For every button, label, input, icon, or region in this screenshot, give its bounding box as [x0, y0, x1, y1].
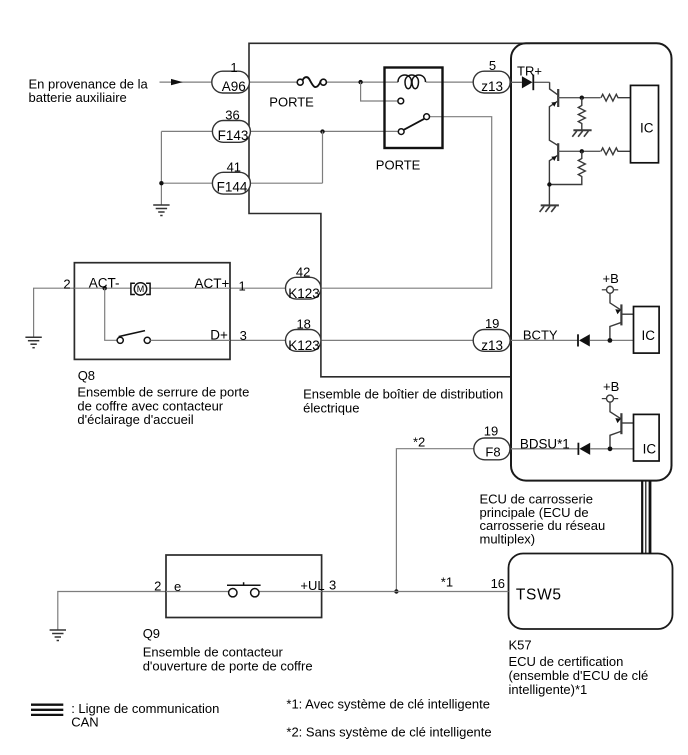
svg-text:41: 41: [227, 160, 241, 175]
ground: hatched inside ECU upper: [572, 130, 591, 137]
IC box BDSU: [634, 414, 660, 461]
node: junction *1 wire: [394, 589, 398, 593]
svg-text:*2: Sans système de clé intell: *2: Sans système de clé intelligente: [286, 725, 491, 740]
wire: Q9 internal right: [259, 591, 322, 593]
node: emitter/resistor junction: [547, 182, 551, 186]
transistor Q3 (BCTY driver): [610, 293, 634, 338]
svg-text:IC: IC: [643, 441, 657, 456]
svg-text:Q9: Q9: [143, 626, 160, 641]
svg-text:BDSU*1: BDSU*1: [520, 436, 570, 451]
IC box BCTY: [634, 307, 660, 354]
resistor R1 horizontal to IC: [601, 94, 631, 101]
transistor Q2 (ECU input pair lower): [549, 143, 558, 204]
resistor R2 horizontal to IC: [601, 148, 631, 155]
svg-text:2: 2: [63, 277, 70, 292]
Q8 courtesy switch blade: [119, 331, 145, 337]
svg-text:2: 2: [154, 579, 161, 594]
svg-text:PORTE: PORTE: [376, 157, 421, 172]
svg-text:3: 3: [240, 328, 247, 343]
svg-text:*2: *2: [413, 434, 425, 449]
wire: Q1 base to resistor node: [558, 97, 600, 99]
node: base node upper: [580, 96, 584, 100]
wire: Q8 internal ACT- to motor: [74, 287, 131, 289]
svg-text:F143: F143: [218, 128, 249, 143]
node: junction F144 / ground: [159, 181, 163, 185]
IC box upper: [631, 85, 659, 162]
svg-text:TSW5: TSW5: [516, 586, 562, 603]
svg-text:16: 16: [491, 576, 505, 591]
svg-text:CAN: CAN: [71, 715, 98, 730]
svg-text:42: 42: [296, 265, 310, 280]
fuse PORTE: [297, 77, 326, 87]
connector z13 pin5: [473, 71, 510, 93]
svg-text:de coffre avec contacteur: de coffre avec contacteur: [77, 398, 223, 413]
ground: hatched inside ECU lower: [540, 205, 559, 212]
resistor R4 vertical to emitter return: [549, 151, 585, 184]
wire: Q8 switch to D+: [150, 339, 230, 341]
node: base node lower: [580, 149, 584, 153]
svg-text:F8: F8: [485, 444, 500, 459]
svg-text:d'éclairage d'accueil: d'éclairage d'accueil: [77, 412, 193, 427]
ground: left of Q9: [50, 630, 66, 641]
svg-text:ACT-: ACT-: [89, 276, 120, 291]
wire: Q9 pin3 to TSW5 pin16: [322, 591, 509, 593]
wire: F143 left to ground junction: [161, 130, 212, 132]
svg-text:z13: z13: [481, 79, 503, 94]
wire: A96 to fuse: [249, 81, 297, 83]
connector F8 pin19: [474, 438, 510, 460]
svg-text:IC: IC: [640, 120, 654, 135]
svg-text:TR+: TR+: [517, 63, 542, 78]
svg-text:F144: F144: [217, 180, 248, 195]
resistor R3 vertical pulldown: [578, 98, 585, 130]
svg-text:multiplex): multiplex): [480, 532, 536, 547]
svg-text:ACT+: ACT+: [195, 276, 230, 291]
transistor Q1 (ECU input pair upper): [549, 82, 558, 145]
svg-text:36: 36: [225, 107, 239, 122]
wire: relay switch output to K123 pin42: [321, 117, 492, 289]
wire: F144 right segment: [251, 182, 323, 184]
svg-text:5: 5: [489, 58, 496, 73]
svg-text:1: 1: [230, 60, 237, 75]
diode D2 BCTY: [577, 334, 579, 346]
Q8 box (serrure de porte de coffre): [74, 263, 230, 360]
svg-text:z13: z13: [481, 338, 503, 353]
connector z13 pin19: [473, 330, 510, 352]
wire: Q8 junction down to courtesy switch: [105, 288, 117, 340]
wire: Q2 base to resistor node: [558, 150, 600, 152]
svg-text:batterie auxiliaire: batterie auxiliaire: [29, 90, 127, 105]
svg-text:Q8: Q8: [78, 368, 95, 383]
node: junction on F143 wire: [320, 129, 324, 133]
svg-text:d'ouverture de porte de coffre: d'ouverture de porte de coffre: [143, 658, 313, 673]
Q8 courtesy switch contacts: [117, 337, 123, 343]
svg-text:K57: K57: [509, 637, 532, 652]
relay switch blade: [404, 119, 424, 130]
transistor Q4 (BDSU driver): [610, 402, 634, 446]
wire: z13 pin19 to diode D2: [511, 339, 578, 341]
svg-text:+UL: +UL: [300, 578, 324, 593]
connector F143 pin36: [212, 121, 250, 143]
node: BCTY collector junction: [608, 338, 613, 343]
CAN legend triple bar: [31, 705, 63, 715]
svg-text:D+: D+: [210, 327, 228, 342]
wire: motor to ACT+: [150, 287, 230, 289]
svg-text:18: 18: [296, 317, 310, 332]
svg-text:3: 3: [329, 578, 336, 593]
svg-text:Ensemble de contacteur: Ensemble de contacteur: [143, 644, 284, 659]
svg-text:(ensemble d'ECU de clé: (ensemble d'ECU de clé: [509, 668, 649, 683]
svg-text:K123: K123: [288, 286, 320, 301]
Q9 push switch contacts: [229, 589, 237, 597]
diode D3 BDSU: [577, 443, 579, 455]
connector A96 pin1: [212, 71, 250, 93]
svg-text:*1: *1: [441, 574, 453, 589]
svg-text:ECU de certification: ECU de certification: [509, 654, 624, 669]
connector F144 pin41: [212, 172, 250, 194]
svg-text:électrique: électrique: [303, 401, 359, 416]
svg-text:Ensemble de boîtier de distrib: Ensemble de boîtier de distribution: [303, 387, 503, 402]
ECU box (ECU de carrosserie principale): [511, 43, 672, 480]
svg-text:Ensemble de serrure de porte: Ensemble de serrure de porte: [77, 384, 249, 399]
svg-text:19: 19: [485, 316, 499, 331]
wire: K123 pin18 to z13 pin19: [321, 339, 473, 341]
wire: F144 left segment: [161, 182, 212, 184]
svg-text:M: M: [137, 284, 145, 294]
Q9 box (contacteur d'ouverture): [166, 555, 322, 618]
svg-text:e: e: [174, 579, 181, 594]
wire: fuse to relay coil: [326, 81, 398, 83]
svg-text:1: 1: [238, 278, 245, 293]
svg-text:A96: A96: [222, 79, 246, 94]
wire: F8 to *2 vertical and down to Q9 output wire: [396, 449, 473, 592]
wire: junction down to coil return contact: [361, 82, 398, 101]
relay coil return contact: [398, 98, 404, 104]
wire: battery input to A96: [160, 81, 213, 83]
ground: below F144: [153, 205, 169, 216]
distribution box outline: [249, 43, 530, 377]
Q9 push switch plunger bar: [227, 582, 261, 585]
wire: Q8 ACT+ pin1 to K123 pin42: [230, 287, 286, 289]
svg-text:K123: K123: [288, 338, 320, 353]
CAN bus triple lines: [642, 481, 650, 554]
relay switch upper contact: [424, 114, 430, 120]
svg-text:19: 19: [484, 424, 498, 439]
svg-text:IC: IC: [642, 328, 656, 343]
connector K123 pin42: [286, 277, 321, 299]
node: junction at relay coil feed: [358, 80, 362, 84]
motor M (Q8 actuator): [131, 283, 150, 295]
ground: left of Q8: [25, 337, 41, 348]
relay coil: [398, 75, 426, 89]
connector K123 pin18: [286, 330, 321, 352]
relay switch lower contact: [398, 129, 404, 135]
svg-text:intelligente)*1: intelligente)*1: [509, 682, 588, 697]
wire: left vertical to ground below F144: [160, 131, 162, 204]
wire: Q8 D+ pin3 to K123 pin18: [230, 339, 286, 341]
relay PORTE box: [385, 68, 443, 149]
wire: Q9 pin2 to left ground: [58, 592, 166, 630]
node: BDSU collector junction: [608, 446, 613, 451]
wire: Q9 internal left: [166, 591, 229, 593]
svg-text:+B: +B: [603, 379, 619, 394]
wire: vertical F143 junction to F144 wire: [322, 131, 324, 183]
svg-text:BCTY: BCTY: [523, 327, 558, 342]
svg-text:PORTE: PORTE: [269, 95, 314, 110]
wire: diode D3 to IC: [590, 448, 633, 450]
wire: F143 right to relay switch contact: [251, 130, 399, 132]
TSW5 box (K57 ECU de certification): [509, 554, 673, 630]
node: Q8 ACT- junction: [103, 286, 107, 290]
svg-text:*1: Avec système de clé intell: *1: Avec système de clé intelligente: [286, 696, 490, 711]
arrow: battery feed: [171, 79, 183, 85]
diode D1 TR+ input: [511, 81, 522, 83]
wire: Q8 pin2 to left ground: [34, 288, 75, 337]
wire: F8 pin19 to diode D3: [511, 448, 578, 450]
wire: coil to z13 pin5: [426, 81, 473, 83]
wire: diode D2 to IC: [590, 339, 634, 341]
svg-text:+B: +B: [603, 271, 619, 286]
